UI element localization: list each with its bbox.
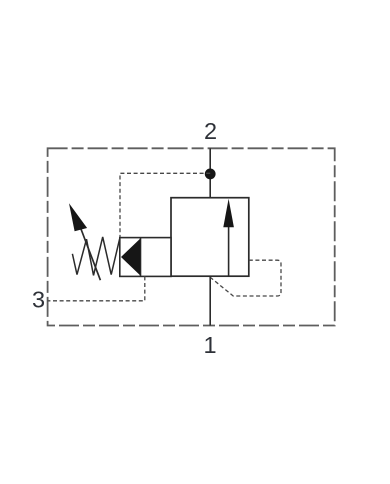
node: junction dot on port 2 line bbox=[205, 169, 216, 180]
wire: port 1 line bbox=[209, 276, 211, 325]
svg-text:3: 3 bbox=[32, 286, 45, 312]
pilot poppet (filled triangle) bbox=[121, 239, 140, 276]
pilot stage divider line bbox=[140, 238, 142, 277]
adjustment arrow (shaft) bbox=[81, 229, 101, 281]
wire: dashed drain line to port 3 bbox=[48, 276, 145, 300]
flow arrow inside main stage bbox=[223, 199, 234, 276]
spring bbox=[72, 237, 119, 276]
svg-text:1: 1 bbox=[203, 332, 216, 358]
pilot stage box bbox=[120, 238, 171, 277]
svg-text:2: 2 bbox=[204, 118, 217, 144]
wire: port 2 line bbox=[209, 148, 211, 197]
wire: dashed pilot line from node to pilot stage bbox=[120, 173, 210, 237]
adjustment arrow (head) bbox=[69, 203, 87, 231]
main stage valve body (square) bbox=[171, 198, 249, 277]
valve enclosure (dashed envelope) bbox=[48, 148, 335, 325]
wire: dashed pilot loop from port 1 to main stage right side bbox=[211, 260, 281, 296]
